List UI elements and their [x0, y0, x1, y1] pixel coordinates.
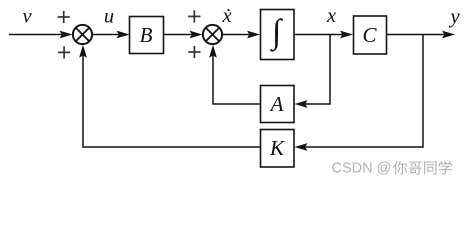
svg-text:C: C: [362, 23, 377, 47]
wire summing junction 2 to integrator: [222, 34, 255, 36]
plus sign lower at junction 1: [58, 46, 70, 58]
svg-text:K: K: [269, 136, 285, 160]
summing junction 2 (circle with X): [203, 25, 222, 44]
arrowhead into summing junction 1: [60, 31, 73, 39]
arrowhead into block B: [117, 31, 130, 39]
arrowhead output y: [442, 31, 455, 39]
arrowhead into block A: [295, 100, 308, 108]
block K: [261, 130, 295, 168]
summing junction 1 (circle with X): [73, 25, 92, 44]
svg-text:B: B: [140, 23, 153, 47]
plus sign lower at junction 2: [188, 46, 200, 58]
svg-text:y: y: [448, 6, 460, 28]
arrowhead into summing junction 2: [190, 31, 203, 39]
integrator block: [261, 10, 295, 60]
arrowhead into block C: [340, 31, 353, 39]
wire node y down to block K input: [300, 35, 423, 148]
svg-text:A: A: [269, 92, 284, 116]
arrowhead A feedback up into summing junction 2: [209, 45, 217, 58]
svg-text:u: u: [104, 6, 114, 28]
arrowhead K feedback up into summing junction 1: [79, 45, 87, 58]
svg-text:v: v: [22, 5, 32, 27]
block C: [354, 16, 387, 54]
wire block B to summing junction 2: [164, 34, 198, 36]
arrowhead into integrator: [247, 31, 260, 39]
arrowhead into block K: [295, 143, 308, 151]
wire node x down to block A input: [300, 35, 330, 105]
wire integrator to block C (node x): [294, 34, 348, 36]
svg-text:ẋ: ẋ: [221, 5, 231, 27]
wire block K output to summing junction 1: [83, 50, 260, 147]
svg-text:x: x: [326, 5, 336, 27]
watermark CSDN @nigetongxue: [332, 161, 453, 177]
block A: [261, 86, 295, 123]
wire block C to output y: [387, 34, 450, 36]
wire block A output to summing junction 2: [213, 50, 260, 104]
wire summing junction 1 to block B: [92, 34, 124, 36]
svg-text:CSDN @: CSDN @: [332, 161, 392, 177]
plus sign upper at junction 1: [58, 11, 70, 23]
wire input v to summing junction 1: [9, 34, 67, 36]
plus sign upper at junction 2: [188, 10, 200, 22]
block B: [130, 17, 164, 54]
